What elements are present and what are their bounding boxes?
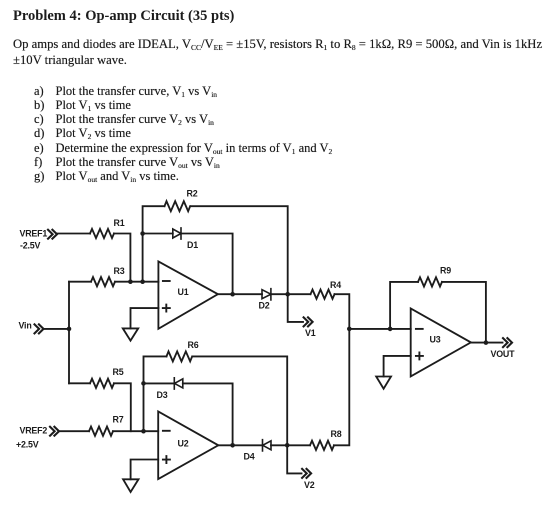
- svg-text:R2: R2: [187, 189, 198, 199]
- document title: [13, 8, 234, 25]
- resistor R4: [311, 290, 335, 299]
- port V2 chevron: [302, 469, 311, 478]
- ground (U3 plus): [376, 377, 391, 389]
- wire R8 up to U3 minus node: [334, 329, 349, 445]
- wire U3 output to VOUT: [471, 342, 503, 344]
- wire R9 feedback loop: [390, 282, 486, 343]
- node R6/D4 out: [285, 443, 290, 448]
- op-amp U1: [158, 262, 218, 329]
- svg-text:VOUT: VOUT: [491, 349, 516, 359]
- U2 minus sign: [163, 430, 170, 432]
- wire D4 to R8: [271, 444, 310, 446]
- port V1 chevron: [304, 317, 313, 326]
- svg-text:V1: V1: [305, 328, 316, 338]
- wire R1 to corner down to U1 minus rail: [114, 234, 130, 282]
- resistor R2: [165, 201, 191, 211]
- wire R5 from Vin rail: [69, 382, 90, 384]
- svg-text:R4: R4: [330, 280, 341, 290]
- node VOUT: [484, 340, 489, 345]
- svg-text:R5: R5: [113, 367, 124, 377]
- svg-text:U3: U3: [430, 335, 441, 345]
- node D1 tap: [140, 231, 145, 236]
- wire V2 tap: [287, 446, 301, 474]
- wire Vin vertical rail: [68, 282, 70, 384]
- resistor R9: [418, 277, 442, 286]
- svg-text:-2.5V: -2.5V: [20, 240, 40, 250]
- resistor R5: [90, 379, 114, 388]
- wire Vin rail to R3: [69, 281, 91, 283]
- port VREF1 chevron: [48, 230, 57, 239]
- U1 minus sign: [163, 280, 170, 282]
- node R2/R3: [140, 279, 145, 284]
- resistor R7: [89, 427, 113, 436]
- wire R5 to corner down to U2 minus rail: [114, 383, 131, 431]
- resistor R3: [91, 277, 115, 286]
- wire V1 tap: [288, 294, 303, 322]
- port VOUT chevron: [503, 338, 512, 347]
- wire U3 minus rail: [349, 328, 410, 330]
- ground (U1 plus): [123, 328, 138, 340]
- wire R7 to U2 minus input: [113, 430, 158, 432]
- svg-text:D2: D2: [259, 300, 270, 310]
- svg-text:V2: V2: [304, 480, 315, 490]
- node R4/R8: [347, 327, 352, 332]
- U1 plus sign: [163, 305, 170, 312]
- op-amp U2: [158, 412, 218, 480]
- svg-text:R6: R6: [188, 340, 199, 350]
- wire D3 to corner down to U2 output: [183, 383, 233, 445]
- wire U1 plus input to ground: [131, 308, 159, 328]
- node Vin: [67, 327, 72, 332]
- node D3/U2 out: [230, 443, 235, 448]
- svg-text:D4: D4: [244, 451, 255, 461]
- svg-text:VREF1: VREF1: [20, 229, 48, 239]
- resistor R8: [310, 441, 334, 450]
- wire U1 output: [218, 293, 262, 295]
- wire R2 feedback loop: [143, 206, 288, 294]
- wire D1 to corner down to U1 output: [181, 234, 233, 295]
- svg-text:U2: U2: [178, 438, 189, 448]
- question list: [34, 84, 332, 183]
- svg-text:R9: R9: [440, 266, 451, 276]
- svg-text:D1: D1: [187, 240, 198, 250]
- node R6/R7: [141, 429, 146, 434]
- wire R6 feedback loop: [144, 356, 288, 445]
- problem statement paragraph: [13, 36, 542, 69]
- svg-text:U1: U1: [178, 287, 189, 297]
- wire VREF2 to R7: [59, 430, 89, 432]
- op-amp U3: [411, 308, 471, 376]
- svg-text:R1: R1: [114, 218, 125, 228]
- node R9 tap: [388, 327, 393, 332]
- ground (U2 plus): [123, 479, 138, 492]
- svg-text:D3: D3: [157, 390, 168, 400]
- wire U3 plus input to ground: [384, 356, 411, 377]
- wire U2 plus input to ground: [131, 460, 159, 480]
- svg-text:R7: R7: [113, 415, 124, 425]
- diode D3: [174, 378, 183, 389]
- svg-text:VREF2: VREF2: [20, 426, 48, 436]
- resistor R6: [167, 351, 193, 361]
- wire D3 branch from R6 vertical: [144, 382, 175, 384]
- wire D2 to R4: [271, 293, 311, 295]
- svg-text:Vin: Vin: [19, 320, 32, 330]
- svg-text:R8: R8: [331, 429, 342, 439]
- U3 plus sign: [416, 352, 423, 359]
- node D3 tap: [141, 381, 146, 386]
- node R2/D2 out: [285, 292, 290, 297]
- port Vin chevron: [35, 324, 44, 333]
- diode D2: [262, 289, 271, 300]
- node R1/R3: [128, 279, 133, 284]
- wire U2 output: [218, 444, 262, 446]
- U2 plus sign: [163, 456, 170, 463]
- wire VREF1 to R1: [57, 233, 90, 235]
- wire D1 branch from R2 vertical: [143, 233, 173, 235]
- node D1/U1 out: [230, 292, 235, 297]
- U3 minus sign: [416, 328, 423, 330]
- wire R3 to U1 minus input: [115, 281, 158, 283]
- port VREF2 chevron: [50, 427, 59, 436]
- svg-text:+2.5V: +2.5V: [16, 439, 39, 449]
- wire Vin to junction: [44, 328, 70, 330]
- svg-text:R3: R3: [114, 266, 125, 276]
- wire R4 to U3 minus node: [335, 294, 350, 329]
- diode D4: [263, 440, 272, 451]
- diode D1: [173, 228, 181, 239]
- resistor R1: [90, 229, 114, 238]
